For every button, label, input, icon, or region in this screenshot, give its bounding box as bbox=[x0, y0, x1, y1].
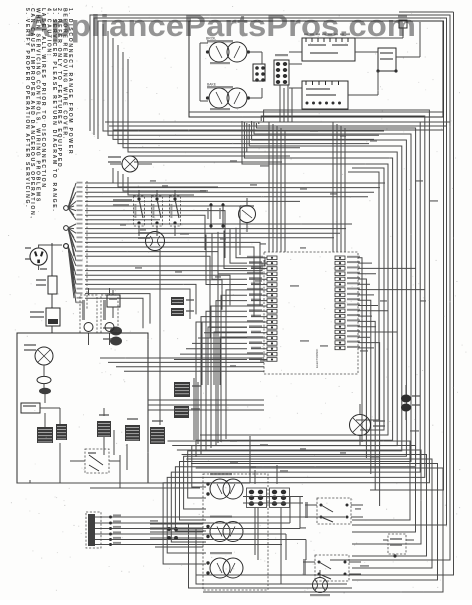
power plug bbox=[25, 244, 68, 270]
watermark AppliancePartsPros.com bbox=[27, 8, 416, 43]
connector J1 bbox=[253, 64, 265, 82]
bottom distribution bus bbox=[168, 441, 444, 592]
element feed wire bbox=[200, 43, 262, 101]
electronic range control bbox=[247, 252, 360, 374]
burner feed stubs bbox=[150, 524, 203, 532]
bake element bbox=[206, 83, 250, 111]
right harness verticals bbox=[348, 168, 384, 430]
surface burner units bbox=[203, 473, 268, 590]
harness wires to controls bbox=[85, 183, 385, 338]
central wire bundle bbox=[103, 24, 384, 162]
lock switch lower bbox=[70, 449, 120, 473]
dlb relay bbox=[239, 198, 256, 232]
hi-limit thermostat bbox=[376, 48, 397, 73]
lamp area corner wires bbox=[113, 168, 230, 195]
interconnect wires bbox=[100, 232, 264, 444]
wire gauge labels bbox=[120, 130, 438, 567]
oven lamp bbox=[108, 156, 152, 172]
element box wires bbox=[262, 22, 420, 98]
warning note text (rotated) bbox=[24, 8, 73, 220]
broil element bbox=[206, 37, 250, 65]
control left wiring bbox=[174, 228, 247, 457]
door switches bbox=[80, 288, 118, 345]
thermal limiter bbox=[383, 534, 414, 558]
control feed verticals bbox=[269, 122, 345, 252]
lower harness connector bbox=[86, 497, 345, 560]
svg-text:BAKE: BAKE bbox=[207, 83, 217, 87]
lower-left long wires bbox=[90, 430, 200, 488]
latch switch upper bbox=[107, 290, 120, 318]
cooling fan motor bbox=[310, 570, 330, 596]
connector pair A bbox=[125, 418, 165, 444]
mid switches bbox=[207, 203, 225, 228]
left box outlet wires bbox=[17, 436, 250, 483]
connector pair C bbox=[97, 408, 111, 455]
thermal fuse top bbox=[398, 16, 407, 29]
relay board bbox=[302, 81, 348, 109]
plug P3 bbox=[274, 54, 289, 85]
connector stack bbox=[171, 297, 194, 316]
surface relay box 2 bbox=[303, 555, 361, 581]
main harness loops (right side) bbox=[163, 110, 429, 564]
svg-text:ELECTRONIC: ELECTRONIC bbox=[315, 348, 319, 368]
probe receptacle bbox=[350, 404, 386, 446]
top power bus and outer right verticals bbox=[90, 12, 454, 575]
power cord fuse chain bbox=[30, 243, 60, 333]
surface relay box 1 bbox=[305, 498, 363, 524]
svg-text:5. VERIFY PROPER OPERATION AFT: 5. VERIFY PROPER OPERATION AFTER SERVICI… bbox=[24, 8, 30, 208]
burner left feeds bbox=[150, 524, 430, 592]
surface unit plugs bbox=[243, 465, 303, 584]
control right wiring bbox=[358, 258, 425, 506]
control area corner staircase bbox=[202, 322, 247, 385]
harness below plug P3 bbox=[280, 85, 292, 122]
clock assembly bbox=[302, 33, 355, 61]
main harness connector fan bbox=[64, 181, 87, 310]
latch resistor marks bbox=[113, 199, 132, 206]
membrane connectors bbox=[103, 327, 122, 346]
connector pair B bbox=[174, 382, 201, 418]
door lock motor section bbox=[17, 333, 148, 483]
oven door/lock switches bbox=[134, 190, 181, 236]
capacitors bbox=[401, 385, 420, 420]
svg-text:BROIL: BROIL bbox=[206, 37, 216, 41]
convection fan bbox=[138, 232, 165, 251]
oven element box outline bbox=[105, 21, 450, 130]
